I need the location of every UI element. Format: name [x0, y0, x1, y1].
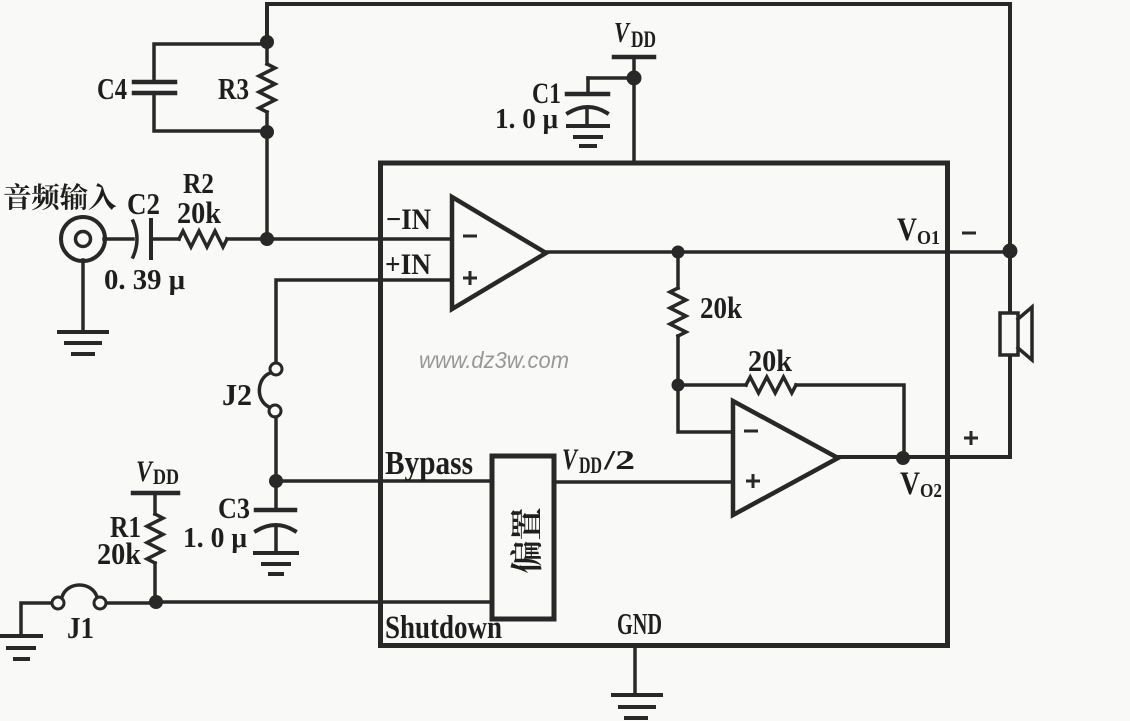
- loudspeaker horn: [1018, 307, 1032, 360]
- output polarity minus (near Vo1): [962, 232, 976, 235]
- wire: U1 output to Vo1 node: [546, 250, 1010, 254]
- capacitor C3 top lead: [274, 481, 278, 508]
- wire: Bypass pin into bias block: [276, 479, 492, 483]
- wire: J2 to bypass node: [274, 417, 278, 481]
- capacitor C1 bottom lead: [585, 110, 589, 125]
- wire: VDD bar to node: [632, 57, 636, 78]
- jumper J1 arc: [62, 585, 97, 597]
- svg-text:C4: C4: [97, 71, 127, 106]
- capacitor C1 top lead: [586, 78, 590, 92]
- svg-text:R3: R3: [218, 71, 249, 106]
- jumper J2 top circle: [270, 363, 282, 375]
- svg-text:O1: O1: [917, 227, 940, 249]
- capacitor C3 bottom lead: [274, 528, 278, 551]
- wire: Rf2 to U2 output column: [796, 385, 904, 458]
- wire: C2 to R2: [151, 237, 179, 241]
- wire: speaker bottom to op-amp U2 output: [838, 356, 1010, 457]
- svg-text:V: V: [136, 455, 154, 488]
- capacitor C3 straight plate: [256, 508, 295, 513]
- capacitor C4 plates: [134, 82, 175, 93]
- node: U1 output / Rf1 junction: [672, 246, 685, 259]
- jumper J1 left circle: [52, 597, 64, 609]
- resistor Rf2 20k horizontal: left lead: [678, 383, 746, 387]
- svg-text:20k: 20k: [97, 536, 142, 571]
- wire: VDD node down into IC top: [632, 78, 636, 162]
- ground symbol below C1: [568, 126, 608, 146]
- node: bypass / C3 / J2 junction: [269, 474, 283, 488]
- svg-text:−IN: −IN: [386, 203, 431, 236]
- node: R1 / J1 shutdown junction: [149, 595, 163, 609]
- svg-text:1. 0 μ: 1. 0 μ: [495, 104, 558, 135]
- wire: Rf1 to lower node: [676, 336, 680, 385]
- svg-text:DD: DD: [579, 453, 602, 478]
- svg-text:20k: 20k: [748, 343, 793, 378]
- wire: VDD/2 from bias block to U2 non-inverting input: [554, 480, 733, 484]
- node: Rf1 / Rf2 / U2 inverting junction: [672, 379, 685, 392]
- resistor Rf2 20k zigzag: [746, 377, 796, 393]
- jumper J2 bottom circle: [269, 405, 281, 417]
- resistor R3 zigzag: [259, 64, 275, 112]
- svg-text:+IN: +IN: [385, 248, 431, 281]
- svg-text:20k: 20k: [177, 195, 222, 230]
- ground symbol at audio input: [59, 332, 107, 354]
- svg-text:V: V: [897, 212, 917, 248]
- bias block box (offset/bias): [492, 456, 554, 619]
- capacitor C4 top lead: [154, 44, 266, 81]
- capacitor C1 curved plate: [568, 107, 607, 113]
- svg-text:/2: /2: [603, 445, 635, 475]
- capacitor C4 bottom lead: [154, 95, 266, 131]
- IC package boundary box: [381, 163, 948, 646]
- svg-text:V: V: [900, 466, 920, 502]
- svg-text:J2: J2: [222, 377, 252, 412]
- svg-text:www.dz3w.com: www.dz3w.com: [419, 347, 569, 373]
- wire: outer top feedback loop from R3 top to speaker column: [267, 4, 1010, 312]
- svg-text:0. 39 μ: 0. 39 μ: [104, 264, 186, 296]
- wire: connector to C2: [104, 237, 133, 241]
- ground symbol at GND pin: [613, 695, 661, 718]
- wire: R1 to shutdown node: [153, 563, 157, 602]
- node: Vo1 / speaker junction: [1003, 244, 1018, 259]
- resistor Rf1 20k zigzag: [670, 288, 686, 336]
- svg-text:20k: 20k: [700, 290, 743, 325]
- VDD supply bar (top, above C1): [614, 55, 654, 60]
- svg-text:Bypass: Bypass: [385, 445, 473, 482]
- wire: connector ground riser: [81, 260, 85, 331]
- wire: R3 bottom to input node: [265, 112, 269, 240]
- op-amp U2 triangle: [733, 401, 838, 515]
- wire: GND pin stub below IC: [633, 646, 637, 694]
- svg-text:J1: J1: [67, 610, 94, 645]
- jumper J2 arc: [259, 373, 270, 407]
- resistor Rf1 20k vertical: top lead: [676, 252, 680, 288]
- node: VDD / C1 junction: [627, 71, 642, 86]
- capacitor C1 straight plate: [567, 92, 608, 97]
- jumper J1 right circle: [94, 597, 106, 609]
- svg-text:1. 0 μ: 1. 0 μ: [183, 523, 247, 554]
- svg-text:GND: GND: [617, 606, 662, 641]
- U1 plus mark: [463, 271, 477, 285]
- loudspeaker rectangle: [1000, 313, 1018, 355]
- label: bias block Chinese text (pian zhi), rotated: [510, 542, 541, 573]
- svg-text:O2: O2: [920, 480, 942, 502]
- U2 minus mark: [744, 430, 758, 433]
- node: R3/C4 bottom junction: [260, 125, 274, 139]
- RCA input connector outer circle: [61, 217, 105, 261]
- wire: J1 left lead and ground riser: [21, 603, 51, 634]
- capacitor C2 curved plate: [133, 221, 137, 257]
- svg-text:DD: DD: [631, 27, 656, 52]
- RCA input connector inner circle: [76, 232, 91, 247]
- node: input / R2 / R3 junction: [260, 232, 274, 246]
- wire: R2 to op-amp U1 inverting input (-IN): [227, 237, 452, 241]
- capacitor C2 straight plate: [149, 220, 153, 258]
- ground symbol at J1: [1, 636, 41, 659]
- VDD supply bar (above R1): [133, 491, 178, 496]
- svg-text:DD: DD: [153, 464, 179, 489]
- svg-text:C2: C2: [127, 186, 160, 221]
- capacitor C3 curved plate: [256, 525, 295, 531]
- U2 plus mark: [746, 474, 760, 488]
- resistor R1 zigzag: [147, 514, 163, 563]
- wire: VDD node to C1: [588, 76, 634, 80]
- svg-text:V: V: [614, 17, 631, 49]
- svg-text:V: V: [562, 443, 579, 476]
- node: R3/C4 top junction: [260, 35, 274, 49]
- op-amp U1 triangle: [452, 197, 546, 309]
- label: Chinese title "audio input" (yin pin shu ru): [4, 183, 30, 210]
- U1 minus mark: [463, 235, 477, 238]
- wire: node to U2 inverting input: [678, 385, 733, 432]
- wire: VDD bar to R1: [153, 493, 157, 514]
- wire: J1 to Shutdown pin into bias block: [107, 602, 492, 603]
- wire: +IN to J2: [276, 280, 452, 362]
- svg-text:Shutdown: Shutdown: [385, 610, 502, 646]
- resistor R2 zigzag: [179, 231, 227, 247]
- resistor R3 top lead: [265, 42, 269, 64]
- svg-text:C3: C3: [218, 492, 250, 525]
- node: U2 output Vo2 junction: [896, 451, 910, 465]
- output polarity plus (near speaker/Vo2): [964, 431, 978, 445]
- ground symbol below C3: [255, 553, 297, 574]
